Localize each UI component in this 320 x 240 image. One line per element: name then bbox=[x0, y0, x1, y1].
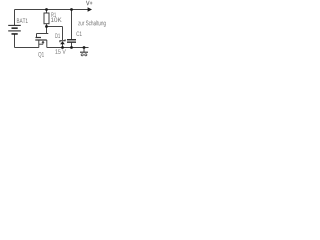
wire zener branch bbox=[47, 26, 63, 28]
output arrow V+ bbox=[88, 7, 92, 11]
wire C1 bottom lead bbox=[71, 43, 73, 48]
wire gate horizontal bbox=[37, 33, 49, 35]
label D1 bbox=[55, 34, 60, 38]
label C1 bbox=[76, 31, 81, 36]
node junction dot gate/zener bbox=[45, 25, 48, 28]
node junction dot C1 top bbox=[70, 8, 73, 11]
label R1 bbox=[51, 13, 56, 17]
wire bottom left segment bbox=[15, 47, 39, 49]
wire zener top lead bbox=[62, 27, 64, 41]
wire battery bottom lead bbox=[14, 34, 16, 47]
wire top rail bbox=[15, 9, 89, 11]
label zur Schaltung bbox=[78, 20, 106, 26]
node junction dot R1 top bbox=[45, 8, 48, 11]
wire R1 bottom lead bbox=[46, 24, 48, 34]
wire bottom right segment bbox=[47, 47, 89, 49]
wire C1 top lead bbox=[71, 10, 73, 40]
zener diode D1 bbox=[60, 39, 65, 44]
wire R1 top lead bbox=[46, 10, 48, 14]
transistor Q1 bbox=[35, 34, 47, 48]
wire battery top lead bbox=[14, 10, 16, 26]
label V+ bbox=[86, 1, 92, 5]
label 10K bbox=[51, 17, 62, 22]
label BAT1 bbox=[17, 19, 28, 23]
label Q1 bbox=[38, 52, 44, 58]
resistor R1 bbox=[44, 13, 49, 24]
capacitor C1 bbox=[67, 39, 76, 43]
node junction dot zener bottom bbox=[61, 46, 64, 49]
wire zener bottom lead bbox=[62, 44, 64, 48]
ground bbox=[80, 48, 88, 56]
label 15 V bbox=[55, 49, 65, 54]
node junction dot ground bbox=[83, 46, 86, 49]
node junction dot C1 bottom bbox=[70, 46, 73, 49]
battery BAT1 bbox=[8, 25, 21, 34]
